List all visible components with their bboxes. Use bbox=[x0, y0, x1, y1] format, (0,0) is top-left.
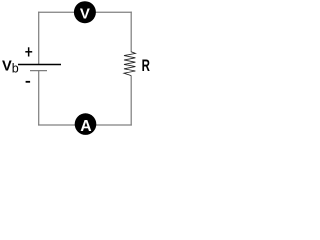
battery minus sign bbox=[26, 81, 31, 83]
svg-text:R: R bbox=[142, 57, 150, 75]
svg-text:A: A bbox=[80, 118, 91, 135]
ammeter A letter bbox=[80, 118, 91, 135]
wire bottom bbox=[38, 124, 132, 126]
wire right lower (resistor to bottom corner) bbox=[130, 76, 132, 126]
battery plus sign bbox=[25, 47, 32, 56]
svg-text:V: V bbox=[80, 6, 90, 23]
wire right upper (top corner to resistor) bbox=[130, 12, 132, 53]
wire left lower (battery - plate to bottom corner) bbox=[38, 71, 40, 126]
voltmeter V letter bbox=[80, 6, 90, 23]
resistor R zigzag bbox=[124, 52, 135, 76]
label R bbox=[142, 57, 150, 75]
label Vb bbox=[2, 58, 19, 75]
battery Vb negative plate bbox=[30, 70, 47, 72]
wire top bbox=[38, 11, 132, 13]
voltmeter V circle bbox=[74, 1, 96, 23]
battery Vb positive plate bbox=[18, 64, 61, 66]
svg-text:Vb: Vb bbox=[2, 58, 19, 75]
wire left upper (top corner to battery + plate) bbox=[38, 12, 40, 65]
ammeter A circle bbox=[75, 113, 97, 135]
